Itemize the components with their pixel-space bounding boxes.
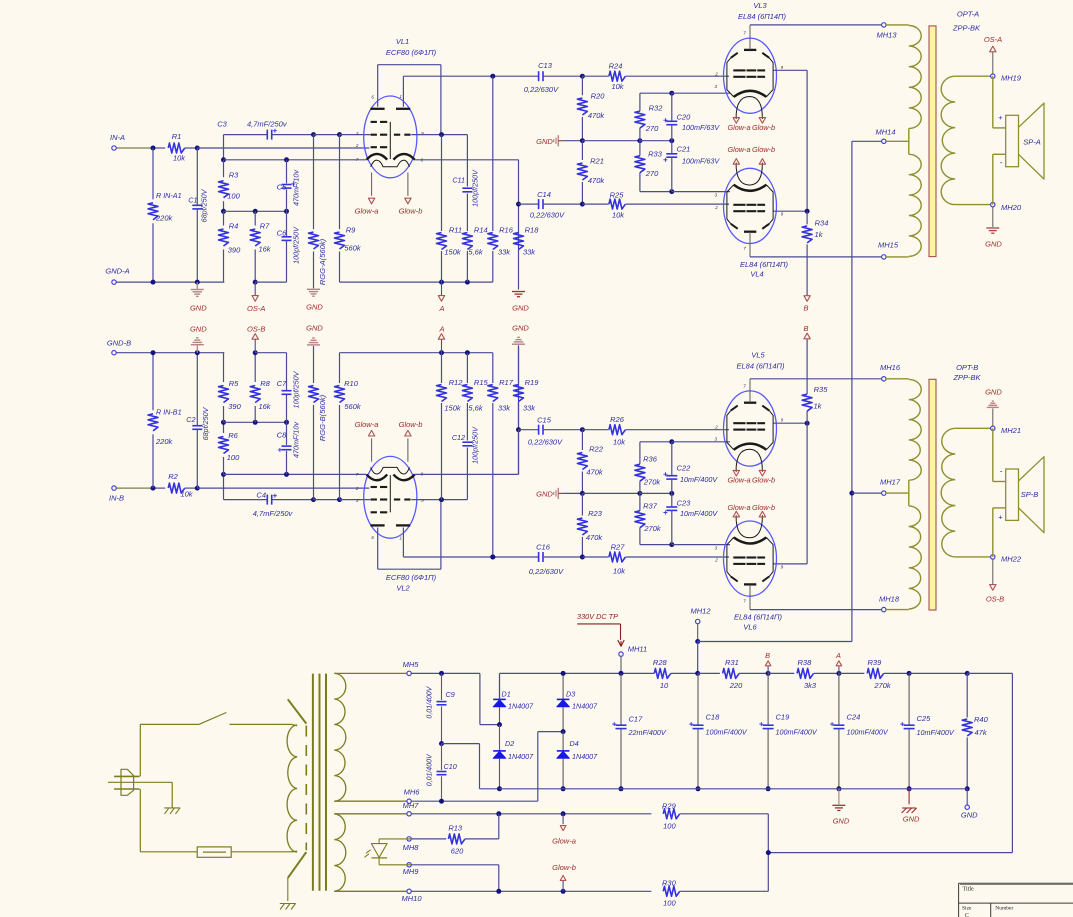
node junction C4/RGG-B [311,497,316,502]
svg-text:33k: 33k [523,248,536,257]
svg-text:R6: R6 [228,431,238,440]
VL4 internal shield [727,185,734,224]
svg-text:GND: GND [190,324,207,333]
svg-text:150k: 150k [444,248,462,257]
terminal MH9 [407,863,411,867]
wire pin8 rowB to R19 [414,473,518,475]
VL5 beam plates [731,406,738,411]
svg-text:VL4: VL4 [750,269,763,278]
svg-text:R11: R11 [449,226,462,235]
svg-text:MH9: MH9 [403,867,420,876]
VL6 heater leads and Glow ports [735,517,737,522]
resistor R6 [219,437,229,454]
terminal IN-B [112,486,116,490]
svg-text:VL6: VL6 [743,623,757,632]
svg-text:470mF/10v: 470mF/10v [291,422,300,458]
transformer OPT-B core [929,379,936,610]
capacitor C13 [538,71,540,81]
VL2 cathodes [367,475,388,481]
power flag GND row B [553,492,555,495]
svg-text:6: 6 [371,535,374,540]
svg-text:3: 3 [715,84,718,89]
svg-text:R26: R26 [610,415,625,424]
svg-text:GND-B: GND-B [107,339,131,348]
node junction Glow-b stem [561,889,566,894]
node junction C4/R10 [337,497,342,502]
svg-text:MH19: MH19 [1001,74,1022,83]
terminal MH7 [407,812,411,816]
VL3 anode [744,49,756,51]
VL1 heater [371,160,410,167]
svg-text:0,22/630V: 0,22/630V [524,85,559,94]
svg-text:7: 7 [743,384,746,389]
wire VL4 plate to MH15 [750,256,882,258]
VL1 anode plates [370,108,384,110]
node junction rail/RIN-A1 [151,280,156,285]
svg-text:R10: R10 [344,379,359,388]
svg-text:10k: 10k [612,211,625,220]
svg-text:R9: R9 [346,226,356,235]
svg-text:C15: C15 [537,415,552,424]
svg-text:B: B [765,651,770,660]
svg-text:OS-B: OS-B [986,594,1004,603]
svg-text:R30: R30 [662,878,677,887]
port Glow-a psu [562,814,564,824]
svg-text:MH14: MH14 [875,128,895,137]
svg-text:MH12: MH12 [690,606,711,615]
capacitor C3 [266,130,268,140]
node junction C25 top [907,671,912,676]
node junction C23 bottom row [669,542,674,547]
fuse [139,789,141,852]
node junction C3/R9 [337,132,342,137]
svg-text:390: 390 [228,245,241,254]
svg-text:9: 9 [781,564,784,569]
svg-text:Glow-b: Glow-b [752,123,775,132]
svg-text:4,7mF/250v: 4,7mF/250v [253,509,294,518]
wire pin8 row to R18 [414,159,518,161]
terminal MH22 [991,555,995,559]
wire MH7 row [411,813,651,815]
terminal MH20 [991,202,995,206]
wire input IN-A to R1 [116,147,153,149]
ground symbol GND above C2 [196,345,198,352]
resistor R16 [492,76,494,231]
wire GND-B rail [116,352,224,354]
svg-text:10k: 10k [611,82,624,91]
svg-text:A: A [438,324,444,333]
svg-text:9: 9 [781,65,784,70]
svg-text:R19: R19 [525,378,540,387]
VL5 anode [744,402,756,404]
svg-text:MH20: MH20 [1001,203,1022,212]
svg-text:6: 6 [371,94,374,99]
capacitor C10 [441,744,443,770]
svg-text:R29: R29 [662,801,677,810]
node junction C10 bottom [439,799,444,804]
svg-text:2: 2 [714,425,718,430]
svg-text:C1: C1 [188,196,197,205]
svg-text:100: 100 [663,822,676,831]
svg-text:9: 9 [781,212,784,217]
svg-text:Number: Number [995,906,1013,912]
svg-text:GND: GND [833,816,850,825]
svg-text:220k: 220k [155,213,174,222]
capacitor C23 10mF/400V [671,493,673,506]
svg-text:GND: GND [190,303,207,312]
node junction C5 top [284,157,289,162]
svg-text:R15: R15 [474,378,489,387]
capacitor C11 [466,135,468,187]
resistor R24 [582,75,608,77]
svg-text:MH10: MH10 [401,894,422,903]
capacitor C5 470mF [286,160,288,184]
svg-text:VL5: VL5 [751,351,765,360]
resistor R28 [654,668,671,678]
VL1 cathodes [367,154,388,160]
svg-text:Glow-b: Glow-b [752,476,775,485]
svg-text:Glow-a: Glow-a [727,145,750,154]
resistor R14 [462,233,472,250]
svg-text:470k: 470k [588,176,606,185]
svg-text:C22: C22 [677,464,692,473]
svg-text:R12: R12 [449,378,464,387]
transformer OPT-B secondary [941,428,955,557]
svg-text:R37: R37 [643,502,658,511]
VL6 plate lead [749,585,751,610]
VL4 heater leads and Glow ports [735,164,737,169]
node junction C22 top row [669,439,674,444]
node junction Glow-a stem [561,811,566,816]
VL3 plate lead [749,25,751,50]
svg-text:GND: GND [306,323,323,332]
port B psu [767,666,769,673]
resistor RGG-A(560k) [313,135,315,230]
resistor R IN-A1 [152,148,154,199]
svg-text:ECF80 (6Ф1П): ECF80 (6Ф1П) [386,573,437,582]
wire VL2 grid pin2 row [197,487,369,489]
node junction C9 top [439,671,444,676]
svg-text:560k: 560k [344,244,362,253]
title block frame [959,882,1073,884]
node junction C20 top row [669,91,674,96]
svg-text:C4: C4 [256,490,266,499]
capacitor C2 [196,429,198,488]
node junction IN-B/RIN-B1 [151,486,156,491]
node junction R32/R33 [637,138,642,143]
svg-text:R8: R8 [260,379,270,388]
port A (channel A) [441,282,443,295]
node junction R3/R4 [221,209,226,214]
wire railB segment 3 [340,352,493,354]
svg-text:VL3: VL3 [753,1,767,10]
resistor R34 [806,211,808,224]
svg-text:R3: R3 [229,171,239,180]
node junction R40 top [965,671,970,676]
svg-text:16k: 16k [258,402,271,411]
svg-text:C6: C6 [277,229,287,238]
svg-text:C13: C13 [538,61,553,70]
resistor R20 [581,76,583,95]
svg-text:R17: R17 [499,378,514,387]
resistor R40 [962,719,972,736]
speaker SP-A [992,76,994,128]
wire VL5 pin3 row [672,441,730,443]
svg-text:R39: R39 [868,658,883,667]
svg-text:R24: R24 [609,62,623,71]
svg-text:R25: R25 [610,190,625,199]
node junction R20/R21 [580,138,585,143]
transformer OPT-A core [929,26,936,257]
svg-text:10mF/400V: 10mF/400V [917,728,955,737]
terminal MH8 [407,837,411,841]
terminal MH10 [407,889,411,893]
terminal MH16 [882,377,886,381]
svg-text:3: 3 [715,193,718,198]
svg-text:33k: 33k [523,403,536,412]
svg-text:470mF/10v: 470mF/10v [291,170,300,206]
svg-text:Glow-b: Glow-b [399,207,423,216]
svg-text:2: 2 [355,143,359,148]
wire VL6 plate to MH18 [750,609,882,611]
wire VL6 pin3 row [672,544,730,546]
svg-text:7: 7 [743,31,746,36]
svg-text:100pf/250V: 100pf/250V [291,370,300,408]
svg-text:-: - [1000,466,1003,476]
svg-text:0,22/630V: 0,22/630V [528,438,563,447]
resistor R21 [581,141,583,160]
svg-text:EL84 (6П14П): EL84 (6П14П) [740,260,788,269]
svg-text:C5: C5 [277,182,287,191]
svg-text:+: + [998,513,1003,522]
wire mid row A [224,210,287,212]
capacitor C20 100mF/63V [671,93,673,121]
VL4 grid dashes [733,210,745,212]
svg-text:Glow-a: Glow-a [552,836,576,845]
node junction C13/R20 [580,74,585,79]
svg-text:Glow-a: Glow-a [355,420,379,429]
svg-text:1k: 1k [814,401,823,410]
resistor R18 [514,233,524,250]
svg-text:R5: R5 [229,379,239,388]
resistor R9 [339,135,341,230]
wire B+ vertical [851,141,853,641]
VL1 heater lead a [371,173,373,196]
resistor R33 [639,141,641,156]
wire C3 row [224,134,268,136]
power transformer shield [288,699,307,723]
svg-text:3: 3 [356,131,359,136]
transformer OPT-B primary [886,378,909,380]
resistor R23 [581,493,583,515]
svg-text:R34: R34 [815,218,829,227]
node junction D3/D4 mid [561,729,566,734]
diode D4 1N4007 [562,732,564,751]
node junction VL5 pin9 / R35 [805,421,810,426]
node junction R2/C2 [195,486,200,491]
svg-text:R18: R18 [525,226,540,235]
LED optic [378,839,380,844]
svg-text:Glow-a: Glow-a [727,476,750,485]
svg-text:C23: C23 [677,499,692,508]
diode D3 1N4007 [562,673,564,699]
node junction C5/C6 [284,209,289,214]
wire MH14 from B+ vertical [852,140,882,142]
svg-text:Title: Title [963,887,974,893]
capacitor C12 [466,448,468,500]
VL3 heater [736,97,762,120]
wire input IN-B to R2 [116,487,153,489]
wire VL3 pin9 to cathode bus [774,69,808,71]
power transformer core [312,674,314,891]
node junction pin9B/R12 [439,497,444,502]
transformer OPT-A secondary [941,76,955,204]
node junction railB/RIN-B1 [151,350,156,355]
svg-text:3: 3 [715,545,718,550]
svg-text:MH22: MH22 [1001,555,1022,564]
svg-text:5,6k: 5,6k [468,403,483,412]
node junction C15/R19 [516,427,521,432]
svg-text:C18: C18 [706,712,721,721]
capacitor C15 [519,429,539,431]
svg-text:R21: R21 [590,157,604,166]
pentode tube VL5 EL84 envelope [724,391,777,466]
plug earth [171,782,173,808]
resistor R30 [663,886,680,896]
svg-text:0,01/400V: 0,01/400V [427,753,434,786]
svg-text:R36: R36 [643,455,658,464]
svg-text:R35: R35 [814,385,829,394]
svg-text:VL1: VL1 [396,37,409,46]
svg-text:OS-A: OS-A [984,35,1002,44]
diode D2 1N4007 [499,725,501,751]
node junction C14/R18 [516,202,521,207]
wire B+ feed to OPT centre taps [698,641,852,643]
VL2 heater lead b [407,438,409,461]
svg-text:+: + [998,113,1003,122]
resistor R38 [768,672,794,674]
terminal MH6 [407,799,411,803]
port Glow-a VL2 [368,430,374,436]
ground symbol GND under C1 [196,282,198,289]
wire VL2 pin3 row [340,499,371,501]
MH11 stem [620,656,622,673]
node junction C17 bottom [619,786,624,791]
VL2 grid dashes [371,511,377,513]
terminal MH11 [619,652,623,656]
resistor R27 [582,556,608,558]
terminal MH15 [882,255,886,259]
svg-text:R40: R40 [974,715,989,724]
svg-text:ZPP-BK: ZPP-BK [952,24,981,33]
svg-text:Glow-a: Glow-a [727,123,750,132]
svg-text:MH15: MH15 [878,240,899,249]
svg-text:330V DC TP: 330V DC TP [577,612,618,621]
node junction R15 on railB [465,350,470,355]
terminal MH19 [991,74,995,78]
svg-text:560k: 560k [344,402,362,411]
svg-text:MH5: MH5 [403,660,420,669]
resistor R15 [462,385,472,402]
svg-text:C3: C3 [217,120,227,129]
capacitor C1 [196,148,198,205]
VL1 heater lead b [407,173,409,196]
wire mid row B [224,421,287,423]
svg-text:GND: GND [536,137,553,146]
wire GND-A rail [116,281,224,283]
resistor R37 [639,493,641,510]
svg-text:OPT-B: OPT-B [956,363,978,372]
svg-text:10mF/400V: 10mF/400V [680,509,718,518]
node junction R14 on rail [465,280,470,285]
svg-text:IN-A: IN-A [110,133,125,142]
node junction anode row / R16 [490,74,495,79]
resistor R10 [339,405,341,500]
VL5 plate lead [749,379,751,403]
wire rail R31 segment [698,672,720,674]
svg-text:ECF80 (6Ф1П): ECF80 (6Ф1П) [386,48,437,57]
svg-text:7: 7 [356,157,359,162]
node junction D4 anode rail [561,786,566,791]
svg-text:1N4007: 1N4007 [508,752,534,761]
node junction D2 anode rail [497,786,502,791]
wire loop right [967,672,1012,674]
mains plug [121,769,134,795]
wire VL5 plate to MH16 [750,378,882,380]
node junction MH9 joins [496,889,501,894]
svg-text:ZPP-BK: ZPP-BK [952,373,981,382]
port Glow-a VL1 [368,198,374,204]
VL4 plate lead [749,232,751,257]
wire VL4 pin3 row [672,191,730,193]
node junction R29/R30 loop [766,850,771,855]
resistor R3 [219,181,229,198]
svg-text:C20: C20 [677,113,692,122]
svg-text:R33: R33 [648,150,663,159]
svg-text:R31: R31 [725,658,739,667]
resistor R29 [663,809,680,819]
resistor R19 [514,385,524,402]
svg-text:270: 270 [645,169,659,178]
wire MH10 row [411,890,651,892]
VL3 internal shield [727,58,734,97]
wire VL1 pin9 row [411,134,467,136]
resistor R36 [639,442,641,464]
resistor R2 [168,483,185,493]
svg-text:A: A [835,651,841,660]
power flag GND row A [553,139,555,142]
svg-text:47k: 47k [975,728,988,737]
node junction pin9/R11 [439,132,444,137]
svg-text:270k: 270k [643,524,662,533]
wire VL1 pin3 row [340,134,371,136]
svg-text:3: 3 [356,498,359,503]
resistor R39 [839,672,865,674]
svg-text:1N4007: 1N4007 [572,752,598,761]
terminal MH18 [882,607,886,611]
svg-text:3k3: 3k3 [804,681,817,690]
svg-text:R28: R28 [653,658,668,667]
svg-text:10: 10 [660,681,669,690]
svg-text:R27: R27 [611,543,626,552]
triode-pentode tube VL2 ECF80 envelope [364,456,417,538]
ground symbol GND above R19 [518,345,520,474]
port Glow-b psu [562,881,564,891]
capacitor C8 470mF [286,451,288,475]
svg-text:D1: D1 [502,689,511,698]
node junction R22/R23 [580,491,585,496]
svg-text:MH7: MH7 [403,801,420,810]
